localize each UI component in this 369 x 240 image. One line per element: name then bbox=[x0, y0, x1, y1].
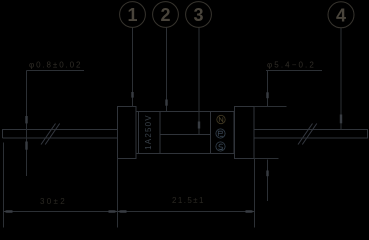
wire right lead bbox=[254, 130, 368, 139]
phi5.4 lower arrow bbox=[266, 171, 268, 177]
leader 3 arrow bbox=[198, 122, 200, 129]
svg-text:φ0.8±0.02: φ0.8±0.02 bbox=[29, 61, 82, 70]
leader line balloon 1 bbox=[132, 28, 134, 108]
leader 4 arrow bbox=[340, 115, 342, 124]
svg-text:1: 1 bbox=[127, 5, 137, 25]
extension line left (wire tip) bbox=[3, 143, 5, 228]
break symbol right bbox=[298, 124, 317, 145]
leader 2 arrow bbox=[165, 100, 167, 106]
leader 1 arrow bbox=[131, 92, 133, 98]
phi0.8 upper arrow bbox=[25, 116, 27, 123]
dim 30 left arrow bbox=[4, 210, 13, 213]
leader line balloon 3 bbox=[198, 28, 200, 135]
dim phi5.4 shelf bbox=[266, 70, 322, 72]
glass body outline bbox=[136, 112, 234, 154]
balloon 2 bbox=[153, 2, 179, 28]
mark PS (middle certification logo) bbox=[216, 129, 225, 138]
phi0.8 lower arrow bbox=[25, 142, 27, 150]
fuse element wire bbox=[160, 134, 210, 136]
break symbol left bbox=[41, 124, 60, 145]
mark N (top certification logo) bbox=[217, 115, 225, 123]
phi5.4 upper arrow bbox=[266, 92, 268, 98]
arrowheads (solid blobs) bbox=[4, 92, 343, 213]
right cap body bbox=[235, 107, 255, 159]
svg-text:21.5±1: 21.5±1 bbox=[172, 196, 205, 205]
mark S (bottom certification logo) bbox=[216, 142, 225, 151]
svg-text:4: 4 bbox=[336, 5, 346, 25]
leader line balloon 2 bbox=[166, 28, 168, 112]
extension line right (cap face) bbox=[254, 159, 256, 228]
bottom dimension line bbox=[4, 211, 255, 213]
marks box bbox=[211, 112, 235, 154]
balloon 4 bbox=[328, 2, 354, 28]
svg-text:1A250V: 1A250V bbox=[144, 114, 153, 150]
leader line balloon 4 bbox=[340, 28, 342, 130]
label box 1A250V bbox=[139, 112, 161, 154]
dim phi0.8 shelf bbox=[27, 70, 85, 72]
svg-text:3: 3 bbox=[193, 5, 203, 25]
cap bottom extension line bbox=[254, 158, 279, 160]
balloon 3 bbox=[186, 2, 212, 28]
dim 21.5 left arrow bbox=[118, 210, 127, 213]
left cap body bbox=[118, 107, 137, 159]
dim phi5.4 upper vertical bbox=[267, 71, 269, 107]
svg-text:φ5.4−0.2: φ5.4−0.2 bbox=[267, 61, 316, 70]
dim 30 right arrow bbox=[109, 210, 118, 213]
dim phi0.8 vertical line bbox=[26, 71, 28, 177]
svg-text:2: 2 bbox=[160, 5, 170, 25]
dim phi5.4 lower vertical bbox=[267, 160, 269, 202]
balloon 1 bbox=[120, 2, 146, 28]
wire left lead bbox=[3, 130, 118, 139]
svg-text:30±2: 30±2 bbox=[40, 197, 67, 206]
cap top extension line bbox=[254, 106, 287, 108]
extension line middle (cap face) bbox=[117, 159, 119, 228]
dim 21.5 right arrow bbox=[246, 210, 255, 213]
